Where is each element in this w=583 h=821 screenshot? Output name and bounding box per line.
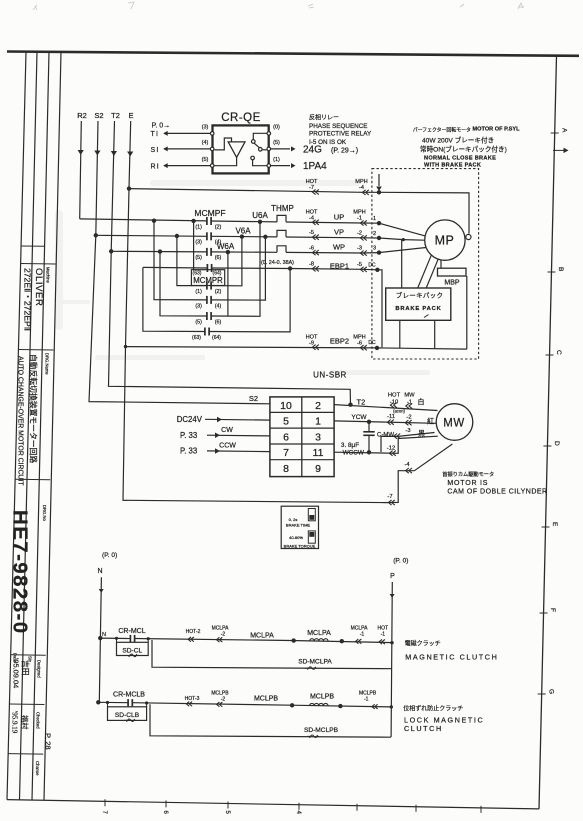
- svg-text:-1: -1: [381, 632, 386, 638]
- svg-text:白: 白: [418, 397, 425, 406]
- svg-text:VP: VP: [334, 227, 344, 236]
- contact MCMPF 1-2: [195, 217, 221, 230]
- label 3.8uF: [341, 442, 359, 449]
- svg-text:I-5 ON IS OK: I-5 ON IS OK: [309, 139, 347, 146]
- svg-text:(6): (6): [215, 320, 222, 326]
- svg-text:R I: R I: [151, 163, 159, 170]
- rail N: [99, 577, 104, 703]
- relay CR-QE right pin 5: [267, 140, 280, 151]
- connector -12: [387, 445, 396, 456]
- wire T2 drop to UN-SBR: [109, 251, 351, 404]
- svg-text:E: E: [128, 111, 133, 120]
- svg-text:Checked: Checked: [36, 712, 41, 729]
- bottom edge tick marks: [105, 799, 481, 813]
- svg-text:1PA4: 1PA4: [303, 161, 327, 172]
- label UP: [334, 213, 344, 222]
- terminal table UN-SBR: [270, 397, 334, 477]
- note magnetic clutch: [405, 640, 499, 662]
- title block divider Designed/Checked: [9, 703, 44, 706]
- svg-text:(3): (3): [195, 303, 202, 309]
- svg-text:U6A: U6A: [252, 211, 268, 220]
- svg-text:-12: -12: [387, 445, 395, 451]
- wire -4 from MW: [385, 444, 452, 503]
- sheet bottom border: [7, 800, 539, 809]
- relay CR-QE internal switch contacts: [251, 133, 267, 165]
- svg-text:P: P: [390, 573, 395, 580]
- coil MCLPA: [292, 630, 344, 643]
- svg-text:'95.9.19: '95.9.19: [11, 711, 19, 734]
- label P. 0 arrow: [152, 123, 171, 130]
- svg-text:首振りカム駆動モータ: 首振りカム駆動モータ: [442, 470, 494, 478]
- svg-text:-2: -2: [406, 415, 411, 421]
- wire E drop to EBP2 and motor common: [123, 186, 385, 502]
- svg-text:MCLPA: MCLPA: [307, 630, 331, 637]
- label wire MCLPB: [254, 696, 278, 703]
- svg-text:吉田: 吉田: [21, 660, 30, 676]
- connector MW-1: [404, 393, 415, 409]
- svg-text:LOCK MAGNETIC: LOCK MAGNETIC: [404, 716, 484, 725]
- svg-text:7: 7: [283, 447, 289, 459]
- svg-text:(P. 29→): (P. 29→): [331, 148, 358, 155]
- svg-text:THMP: THMP: [271, 204, 294, 213]
- svg-text:3: 3: [373, 245, 376, 251]
- node MP terminal 2: [373, 231, 425, 241]
- svg-text:-4: -4: [404, 462, 410, 468]
- svg-text:6: 6: [283, 431, 289, 443]
- label P. 33 CCW: [180, 447, 197, 456]
- wire row3 T2 to W6A: [111, 251, 379, 253]
- svg-text:W6A: W6A: [217, 242, 235, 251]
- svg-text:-1: -1: [364, 697, 369, 703]
- title block label Machine: [46, 267, 51, 283]
- connector -8 row EBP1: [309, 261, 319, 271]
- note MW motor description: [442, 470, 547, 495]
- svg-text:E: E: [551, 522, 558, 527]
- label 24G: [303, 144, 322, 155]
- svg-text:P. 28: P. 28: [44, 733, 53, 750]
- svg-text:-4: -4: [359, 185, 364, 191]
- connector -2 row VP: [357, 230, 367, 240]
- wire brake pack feeds: [402, 240, 439, 288]
- label W6A: [217, 242, 235, 251]
- contact MCMPF 3-4: [195, 232, 221, 245]
- svg-text:-6: -6: [309, 245, 314, 251]
- title block text date 95.09.04: [12, 658, 21, 688]
- svg-text:-2: -2: [221, 697, 226, 703]
- label wire MCLPA: [250, 633, 274, 640]
- svg-text:-5: -5: [309, 230, 314, 236]
- svg-text:F: F: [549, 608, 556, 612]
- svg-text:MOTOR IS: MOTOR IS: [447, 480, 488, 487]
- connector MCLPA-1: [351, 626, 369, 644]
- label T2 at UN-SBR: [357, 398, 366, 407]
- svg-text:MCLPB: MCLPB: [254, 696, 278, 703]
- wire MBP right riser: [466, 276, 468, 349]
- bottom edge column numbers 7 6 5 4: [101, 811, 301, 815]
- svg-text:MBP: MBP: [444, 280, 460, 287]
- label DC24V: [177, 415, 203, 424]
- svg-text:(64): (64): [212, 335, 221, 341]
- title block divider DRG.Name/DRG.No: [15, 478, 50, 481]
- svg-text:HOT-3: HOT-3: [185, 696, 200, 702]
- title block label Sin: [28, 656, 33, 663]
- title block divider Machine/DRG.Name: [18, 349, 53, 352]
- svg-text:-3: -3: [405, 428, 410, 434]
- label MCMPF: [194, 208, 225, 218]
- connector -2 MW: [405, 415, 411, 426]
- node MP terminal 1: [373, 216, 425, 236]
- node MP terminal 3: [373, 245, 426, 254]
- right edge row letter ticks: [538, 133, 559, 694]
- connector HOT-3: [185, 696, 200, 706]
- svg-text:PROTECTIVE RELAY: PROTECTIVE RELAY: [309, 131, 372, 138]
- label CR-MCL: [118, 628, 145, 635]
- svg-text:40-80%: 40-80%: [289, 535, 303, 540]
- wire row4 E to EBP1: [143, 267, 378, 269]
- svg-text:NORMAL CLOSE BRAKE: NORMAL CLOSE BRAKE: [424, 156, 496, 162]
- connector -5 row VP: [309, 230, 319, 240]
- contact CR-MCLB: [128, 699, 132, 706]
- connector MCLPB-1: [359, 691, 378, 709]
- label EBP1: [330, 262, 349, 271]
- svg-text:AUTO CHANGE-OVER MOTOR CIRCUIT: AUTO CHANGE-OVER MOTOR CIRCUIT: [17, 356, 24, 486]
- svg-text:0. 2s: 0. 2s: [289, 517, 298, 522]
- connector HOT-1: [378, 626, 389, 645]
- wire CW input: [207, 427, 270, 438]
- wire brake pack bottom left riser: [399, 320, 401, 348]
- svg-text:2: 2: [373, 231, 376, 237]
- svg-text:S2: S2: [94, 111, 103, 120]
- svg-text:MCLPB: MCLPB: [310, 694, 334, 701]
- label white wire: [418, 397, 425, 406]
- label P: [390, 573, 395, 580]
- svg-text:(5): (5): [195, 255, 202, 261]
- svg-text:MCLPA: MCLPA: [250, 633, 274, 640]
- label P.0 left: [102, 552, 117, 559]
- svg-text:BRAKE TIME: BRAKE TIME: [286, 523, 310, 528]
- relay CR-QE left pin 5: [202, 157, 214, 168]
- svg-text:1: 1: [315, 416, 321, 428]
- node MP aux terminal wire: [377, 190, 471, 239]
- label acon small: [393, 409, 405, 414]
- svg-text:BRAKE PACK: BRAKE PACK: [395, 306, 441, 312]
- connector -6 row WP: [309, 245, 319, 255]
- wire W6A tap: [227, 252, 229, 316]
- svg-text:(3): (3): [195, 240, 202, 246]
- wire CR-QE S1 with arrow: [151, 146, 211, 153]
- relay CR-QE left pin 3: [202, 125, 214, 136]
- title block text AUTO CHANGE-OVER MOTOR CIRCUIT: [17, 356, 24, 486]
- title block handwriting 95.9.19: [11, 711, 19, 734]
- label current range 0.24-0.38A: [261, 260, 294, 266]
- thermal element THMP row2: [277, 230, 286, 237]
- svg-text:-6: -6: [357, 340, 362, 346]
- svg-text:UP: UP: [334, 213, 344, 222]
- page number P.28: [44, 733, 53, 750]
- svg-text:CR-MCLB: CR-MCLB: [113, 692, 145, 699]
- title block label DRG.No: [42, 505, 47, 521]
- title block column line 3: [32, 52, 49, 800]
- svg-text:-10: -10: [390, 400, 398, 406]
- svg-text:-11: -11: [387, 414, 395, 420]
- svg-text:Machine: Machine: [46, 267, 51, 283]
- wire CR-QE T1 with arrow: [151, 131, 211, 138]
- wire SD-MCLPA return: [152, 640, 392, 670]
- node N row B: [96, 700, 100, 704]
- svg-text:S2: S2: [249, 394, 258, 403]
- wire CR-QE to 24G: [271, 146, 296, 151]
- wire MCMPR row 1-2: [177, 236, 242, 286]
- rail P: [390, 582, 395, 737]
- connector MPH-6 row EBP2: [353, 334, 367, 350]
- label UN-SBR: [313, 371, 347, 380]
- svg-text:HOT: HOT: [388, 393, 401, 399]
- svg-text:(5): (5): [273, 140, 280, 146]
- svg-text:WP: WP: [333, 243, 345, 252]
- label EBP2: [330, 337, 349, 346]
- connector MPH-1 row UP: [353, 209, 367, 225]
- svg-text:1: 1: [373, 216, 376, 222]
- title block stamp Fukumura: [20, 715, 29, 729]
- svg-text:-3: -3: [357, 246, 362, 252]
- svg-text:MW: MW: [404, 393, 415, 399]
- svg-text:(4): (4): [202, 140, 209, 146]
- svg-text:常時ON(ブレーキパック付き): 常時ON(ブレーキパック付き): [420, 144, 507, 153]
- svg-text:(acon): (acon): [393, 409, 405, 414]
- connector HOT-4 row UP: [306, 209, 319, 225]
- wire UN-SBR row1 to MW white: [334, 403, 437, 411]
- label WP: [333, 243, 345, 252]
- svg-text:-2: -2: [221, 632, 226, 638]
- svg-text:PHASE SEQUENCE: PHASE SEQUENCE: [309, 123, 367, 130]
- svg-text:-7: -7: [387, 494, 392, 500]
- note phase sequence relay: [309, 114, 372, 146]
- svg-text:D: D: [553, 441, 560, 446]
- wire E row HOT-7: [129, 189, 379, 193]
- junction dots contact block: [94, 219, 293, 271]
- node N row A: [98, 632, 106, 640]
- svg-text:(5): (5): [202, 157, 209, 163]
- svg-text:(P. 0): (P. 0): [393, 558, 408, 565]
- svg-text:(1): (1): [273, 157, 280, 163]
- wire CR-QE to 1PA4: [271, 163, 296, 168]
- relay CR-QE left pin 4: [202, 140, 214, 151]
- brake pack box: [386, 288, 451, 320]
- note perfector motor: [413, 126, 520, 168]
- svg-text:40W 200V ブレーキ付き: 40W 200V ブレーキ付き: [422, 136, 494, 145]
- svg-text:-1: -1: [357, 215, 362, 221]
- node EBP1 DC: [368, 263, 382, 348]
- svg-text:(2): (2): [215, 224, 222, 230]
- connector HOT-2: [186, 629, 201, 642]
- label red wire: [427, 417, 434, 426]
- contact MCMPR 3-4: [195, 296, 221, 310]
- svg-text:272EⅡ・272EPⅡ: 272EⅡ・272EPⅡ: [23, 268, 33, 331]
- svg-text:9: 9: [315, 463, 321, 475]
- label S2 at UN-SBR: [249, 394, 258, 403]
- svg-text:-9: -9: [309, 340, 314, 346]
- svg-text:P. 0→: P. 0→: [152, 123, 171, 130]
- svg-text:自動反転切換装置モーター回路: 自動反転切換装置モーター回路: [29, 354, 39, 463]
- wire MP to MBP: [440, 260, 442, 268]
- svg-text:-5: -5: [357, 262, 362, 268]
- relay CR-QE title: [221, 112, 261, 124]
- svg-text:(5): (5): [195, 320, 202, 326]
- svg-text:-2: -2: [357, 230, 362, 236]
- label N: [97, 568, 102, 575]
- wire brake pack bottom right riser: [434, 320, 436, 349]
- svg-text:(4): (4): [215, 303, 222, 309]
- label P.0 right: [393, 558, 408, 565]
- label T2: [111, 111, 120, 120]
- svg-text:電磁クラッチ: 電磁クラッチ: [405, 640, 441, 648]
- svg-text:SD-MCLPA: SD-MCLPA: [298, 659, 332, 666]
- connector MCLPB-2: [211, 691, 229, 707]
- wire MCMPR row 63-64: [143, 267, 290, 332]
- title block label Date: [13, 653, 18, 663]
- label V6A: [235, 227, 251, 236]
- title block label Change: [35, 761, 40, 776]
- title block column line 4: [44, 52, 61, 800]
- title block divider Checked/Change: [8, 753, 43, 756]
- svg-text:黒: 黒: [418, 429, 425, 437]
- node P row A: [390, 641, 393, 644]
- label CR-MCLB: [113, 692, 145, 699]
- svg-text:HE7-9828-0: HE7-9828-0: [9, 510, 32, 635]
- svg-text:-8: -8: [309, 261, 314, 267]
- motor MW: [436, 404, 473, 441]
- label 1PA4: [303, 161, 327, 172]
- 24G exit arrow at right border: [553, 148, 569, 154]
- svg-text:V6A: V6A: [235, 227, 251, 236]
- wire CCW input: [207, 443, 270, 454]
- wire row2 S2 to V6A: [96, 235, 379, 238]
- svg-text:-4: -4: [309, 215, 314, 221]
- svg-text:3: 3: [315, 431, 321, 443]
- svg-text:(1): (1): [195, 289, 202, 295]
- title block divider above Machine cell: [21, 263, 56, 266]
- wire S2 input drop: [94, 121, 100, 235]
- svg-text:(6): (6): [215, 255, 222, 261]
- svg-text:DRG.No: DRG.No: [42, 505, 47, 521]
- svg-text:24G: 24G: [303, 144, 322, 155]
- svg-text:位相ずれ防止クラッチ: 位相ずれ防止クラッチ: [403, 705, 463, 713]
- contact MCMPR 5-6: [195, 312, 221, 326]
- svg-text:SD-CL: SD-CL: [122, 647, 142, 654]
- connector HOT-9 row EBP2: [306, 334, 319, 349]
- wire clutch row B: [98, 702, 391, 707]
- relay CR-QE internal amplifier triangle: [214, 138, 245, 166]
- svg-text:(2): (2): [215, 289, 222, 295]
- resistor MBP box: [438, 268, 467, 286]
- sheet right border: [539, 56, 557, 809]
- wire E input drop: [127, 121, 133, 189]
- relay CR-QE right pin 1: [267, 157, 280, 168]
- connector -11: [387, 414, 395, 425]
- svg-text:Chanse: Chanse: [35, 761, 40, 776]
- svg-text:T I: T I: [151, 131, 158, 138]
- svg-text:P. 33: P. 33: [180, 447, 197, 456]
- label P. 33 CW: [180, 431, 197, 440]
- title block divider small cell: [21, 245, 44, 247]
- wire R2 input drop: [78, 121, 84, 219]
- wire row1 R2 to U6A: [80, 219, 379, 223]
- right edge row letters A-G: [547, 128, 567, 694]
- svg-text:MAGNETIC CLUTCH: MAGNETIC CLUTCH: [405, 653, 498, 662]
- svg-text:SD-MCLPB: SD-MCLPB: [304, 727, 339, 734]
- node EBP2 DC: [368, 340, 379, 350]
- sheet top border: [7, 52, 579, 56]
- svg-text:C: C: [555, 350, 562, 355]
- svg-text:反相リレー: 反相リレー: [309, 114, 339, 122]
- svg-text:(1): (1): [195, 224, 202, 230]
- svg-text:T2: T2: [111, 111, 120, 120]
- svg-text:CAM OF DOBLE CILYNDER: CAM OF DOBLE CILYNDER: [447, 488, 547, 495]
- connector -3 row WP: [357, 246, 367, 256]
- relay CR-QE box: [213, 125, 269, 173]
- wire -3 black from MW: [381, 433, 435, 453]
- wire U6A feed to MCMPR box: [193, 221, 195, 270]
- wire DC24V input: [205, 417, 270, 423]
- note lock magnetic clutch: [403, 705, 484, 734]
- svg-text:(0): (0): [273, 125, 280, 131]
- contact MCMPF 63-64 with MCMPR box: [191, 264, 224, 286]
- connector -4: [404, 462, 412, 473]
- svg-text:N: N: [97, 568, 102, 575]
- svg-text:ブレーキパック: ブレーキパック: [396, 291, 444, 300]
- svg-text:N: N: [102, 632, 106, 638]
- title block stamp Yoshida: [21, 660, 30, 676]
- svg-text:5: 5: [283, 416, 289, 428]
- svg-text:-1: -1: [407, 400, 412, 406]
- wire CR-QE R1 with arrow: [151, 163, 211, 170]
- svg-text:Designed: Designed: [37, 660, 42, 678]
- svg-text:HOT-2: HOT-2: [186, 629, 201, 635]
- contact MCMPR 63-64: [192, 328, 221, 341]
- svg-text:YCW: YCW: [351, 414, 367, 421]
- svg-text:CW: CW: [221, 427, 233, 434]
- svg-text:WITH BRAKE PACK: WITH BRAKE PACK: [424, 162, 481, 168]
- contact MCMPR 1-2: [195, 282, 221, 296]
- title block label Checked: [36, 712, 41, 729]
- svg-text:10: 10: [280, 400, 292, 412]
- thermal element THMP row3: [277, 246, 286, 253]
- svg-text:R2: R2: [77, 111, 87, 120]
- thermal element THMP row1: [277, 215, 286, 222]
- label SD-MCLPA: [298, 659, 332, 666]
- label THMP: [271, 204, 294, 213]
- svg-text:(P. 0): (P. 0): [102, 552, 117, 559]
- svg-text:福村: 福村: [20, 715, 29, 729]
- wire SD-MCLPB return: [150, 704, 391, 738]
- label SD-MCLPB: [304, 727, 339, 734]
- svg-text:B: B: [557, 267, 564, 271]
- title block text HE7-9828-0: [9, 510, 32, 635]
- node P row B: [390, 705, 393, 708]
- svg-text:3. 8μF: 3. 8μF: [341, 442, 359, 449]
- timer SD-CLB box: [106, 701, 148, 722]
- svg-text:EBP1: EBP1: [330, 262, 349, 271]
- svg-text:パーフェクター回転モータ: パーフェクター回転モータ: [413, 126, 471, 133]
- dashed enclosure motor MP: [372, 169, 479, 359]
- svg-text:S I: S I: [151, 147, 159, 154]
- connector MPH-4 row E: [355, 179, 369, 195]
- svg-text:-1: -1: [360, 632, 365, 638]
- svg-text:紅: 紅: [427, 417, 434, 426]
- wire MCMPR row 5-6: [160, 222, 260, 316]
- coil MCLPB: [290, 694, 343, 709]
- label R2: [77, 111, 87, 120]
